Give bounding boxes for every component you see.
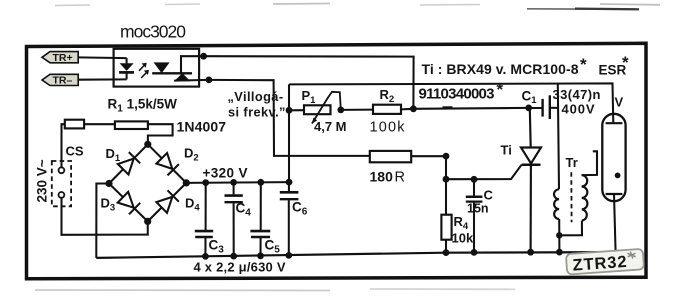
tube bottom electrode — [606, 193, 623, 195]
wire C1 node to transformer primary — [558, 84, 559, 190]
svg-text:C: C — [484, 188, 494, 203]
capacitor C 15n — [466, 179, 483, 252]
light emission arrows — [139, 64, 148, 78]
node C4 top — [230, 179, 237, 186]
terminal circle bottom — [59, 192, 65, 198]
thyristor Ti — [521, 108, 541, 252]
capacitor C5 — [250, 182, 270, 256]
transformer primary lead down — [558, 219, 560, 252]
svg-text:TR+: TR+ — [53, 52, 73, 64]
resistor R4 — [441, 179, 451, 252]
fuse CS — [65, 120, 84, 129]
resistor 180R wire — [411, 156, 446, 179]
node gate-C — [471, 176, 478, 183]
transformer secondary coil — [582, 175, 588, 221]
svg-text:180: 180 — [370, 169, 394, 185]
wire +320 node up to top line — [288, 84, 290, 182]
svg-text:+320 V: +320 V — [203, 166, 248, 181]
node opto bottom output — [206, 77, 213, 84]
wire mains return to bridge bottom — [62, 198, 148, 235]
svg-text:*: * — [497, 80, 504, 99]
scan smudge top-far-right — [600, 3, 660, 6]
node opto top output — [200, 53, 207, 60]
node rail C4 — [230, 253, 237, 260]
bridge diamond wires — [109, 144, 186, 221]
node bridge top — [144, 141, 151, 148]
resistor R1 — [115, 121, 148, 129]
svg-text:C1: C1 — [522, 88, 538, 106]
tube gas dot — [615, 173, 621, 179]
wire TR+ to LED anode — [78, 56, 126, 59]
svg-text:33(47)n: 33(47)n — [553, 87, 601, 102]
node rail R4 — [443, 249, 450, 256]
svg-text:Ti: Ti — [501, 143, 512, 158]
svg-text:D2: D2 — [184, 146, 199, 164]
svg-text:4,7 M: 4,7 M — [314, 119, 347, 134]
dashed mains box — [52, 161, 71, 206]
wire P1 to R2 — [341, 109, 373, 111]
optocoupler U1 box — [114, 49, 200, 87]
diode D1 — [118, 152, 140, 174]
svg-text:si frekv.”: si frekv.” — [228, 105, 286, 120]
node rail thyristor — [527, 249, 534, 256]
svg-text:Tr: Tr — [566, 155, 578, 170]
outer frame — [27, 43, 647, 278]
svg-text:TR–: TR– — [53, 75, 73, 87]
wire opto bottom to flasher branch — [209, 80, 370, 156]
connector tag TR- — [42, 74, 78, 85]
wire opto top to R2 column — [204, 56, 414, 109]
scan smudge top-right-1 — [420, 4, 480, 7]
wire R1 to bridge top — [148, 124, 173, 144]
svg-text:C3: C3 — [209, 238, 225, 256]
scan smudge bottom-mid — [370, 288, 515, 290]
connector tag TR+ — [42, 52, 78, 63]
svg-text:CS: CS — [66, 144, 84, 159]
wire node to P1 — [289, 109, 304, 111]
node P1 right — [337, 107, 344, 114]
gate wire from thyristor — [446, 165, 522, 179]
node gate-180R — [443, 153, 450, 160]
ink dash on wire — [443, 106, 453, 109]
svg-text:R4: R4 — [454, 214, 469, 232]
tube top electrode — [606, 122, 623, 124]
top line to lamp — [289, 83, 613, 123]
node transformer common — [556, 232, 562, 238]
resistor 180R — [370, 151, 411, 162]
svg-text:100k: 100k — [370, 119, 406, 135]
ground rail — [96, 252, 616, 258]
flash tube V envelope — [602, 114, 625, 201]
svg-text:1N4007: 1N4007 — [177, 119, 227, 135]
node rail transformer — [556, 249, 563, 256]
node rail C6 — [285, 252, 292, 259]
svg-text:R2: R2 — [380, 87, 395, 105]
svg-text:C4: C4 — [236, 201, 252, 219]
node rail C3 — [202, 253, 209, 260]
svg-text:R: R — [395, 170, 405, 186]
transformer Tr primary coil — [554, 189, 559, 219]
scan smudge top-left — [55, 4, 90, 7]
svg-text:D3: D3 — [101, 196, 116, 214]
potentiometer P1 — [304, 105, 331, 114]
wire R2 to C1 node — [401, 108, 529, 110]
node C6 top — [286, 179, 293, 186]
wire fuse to R1 — [84, 123, 115, 125]
scan smudge top-center — [273, 3, 330, 6]
capacitor C6 — [280, 182, 299, 255]
svg-text:moc3020: moc3020 — [120, 22, 186, 42]
node bridge left — [105, 180, 112, 187]
resistor R2 — [373, 105, 401, 114]
ZTR32 stamp — [566, 249, 644, 275]
transformer core — [570, 172, 572, 222]
scan smudge bottom-left — [35, 289, 330, 292]
node P1 left — [286, 107, 293, 114]
node R2 right — [410, 105, 417, 112]
diode D2 — [156, 153, 179, 175]
svg-text:C5: C5 — [265, 238, 281, 256]
node C1 — [525, 105, 532, 112]
svg-text:10k: 10k — [452, 231, 474, 246]
node rail C5 — [257, 252, 264, 259]
svg-text:4 x 2,2 μ/630 V: 4 x 2,2 μ/630 V — [194, 260, 286, 275]
svg-text:V: V — [615, 95, 624, 110]
trigger electrode wire — [582, 151, 598, 175]
svg-text:15n: 15n — [467, 202, 489, 216]
scan artifact line top-right — [527, 8, 639, 11]
wire bridge left to ground rail — [96, 184, 109, 258]
capacitor C4 — [225, 182, 243, 256]
node gate-R4 — [443, 176, 450, 183]
svg-text:*: * — [580, 55, 587, 74]
node bridge bottom — [144, 218, 151, 225]
wire TR- to LED cathode — [78, 78, 126, 80]
svg-text:9110340003: 9110340003 — [419, 86, 495, 103]
scan smudge top-mid — [165, 3, 200, 6]
svg-text:400V: 400V — [562, 102, 595, 117]
node C3 top — [202, 179, 209, 186]
+320V rail — [186, 181, 289, 184]
svg-text:„Villogá-: „Villogá- — [228, 89, 284, 104]
diode D4 — [156, 190, 178, 213]
diode D3 — [118, 192, 141, 215]
capacitor C1 — [529, 95, 558, 119]
svg-text:Ti : BRX49 v. MCR100-8: Ti : BRX49 v. MCR100-8 — [422, 61, 579, 77]
svg-text:*: * — [622, 53, 629, 72]
svg-text:D4: D4 — [185, 196, 200, 214]
svg-text:P1: P1 — [302, 88, 317, 106]
svg-text:C6: C6 — [292, 200, 308, 218]
LED inside optocoupler — [119, 58, 134, 79]
node bridge right — [183, 179, 190, 186]
capacitor C3 — [195, 183, 213, 257]
wire fuse input from 230V — [62, 124, 65, 167]
photo-triac inside optocoupler — [152, 56, 209, 81]
terminal circle top — [59, 167, 65, 173]
svg-text:230 V~: 230 V~ — [35, 159, 50, 202]
svg-text:ZTR32: ZTR32 — [572, 253, 627, 275]
transformer secondary bottom lead — [559, 221, 582, 236]
tube bottom lead — [614, 194, 616, 252]
svg-text:R1 1,5k/5W: R1 1,5k/5W — [108, 97, 178, 115]
svg-text:D1: D1 — [106, 146, 121, 164]
node C5 top — [257, 179, 264, 186]
node rail C — [471, 249, 478, 256]
